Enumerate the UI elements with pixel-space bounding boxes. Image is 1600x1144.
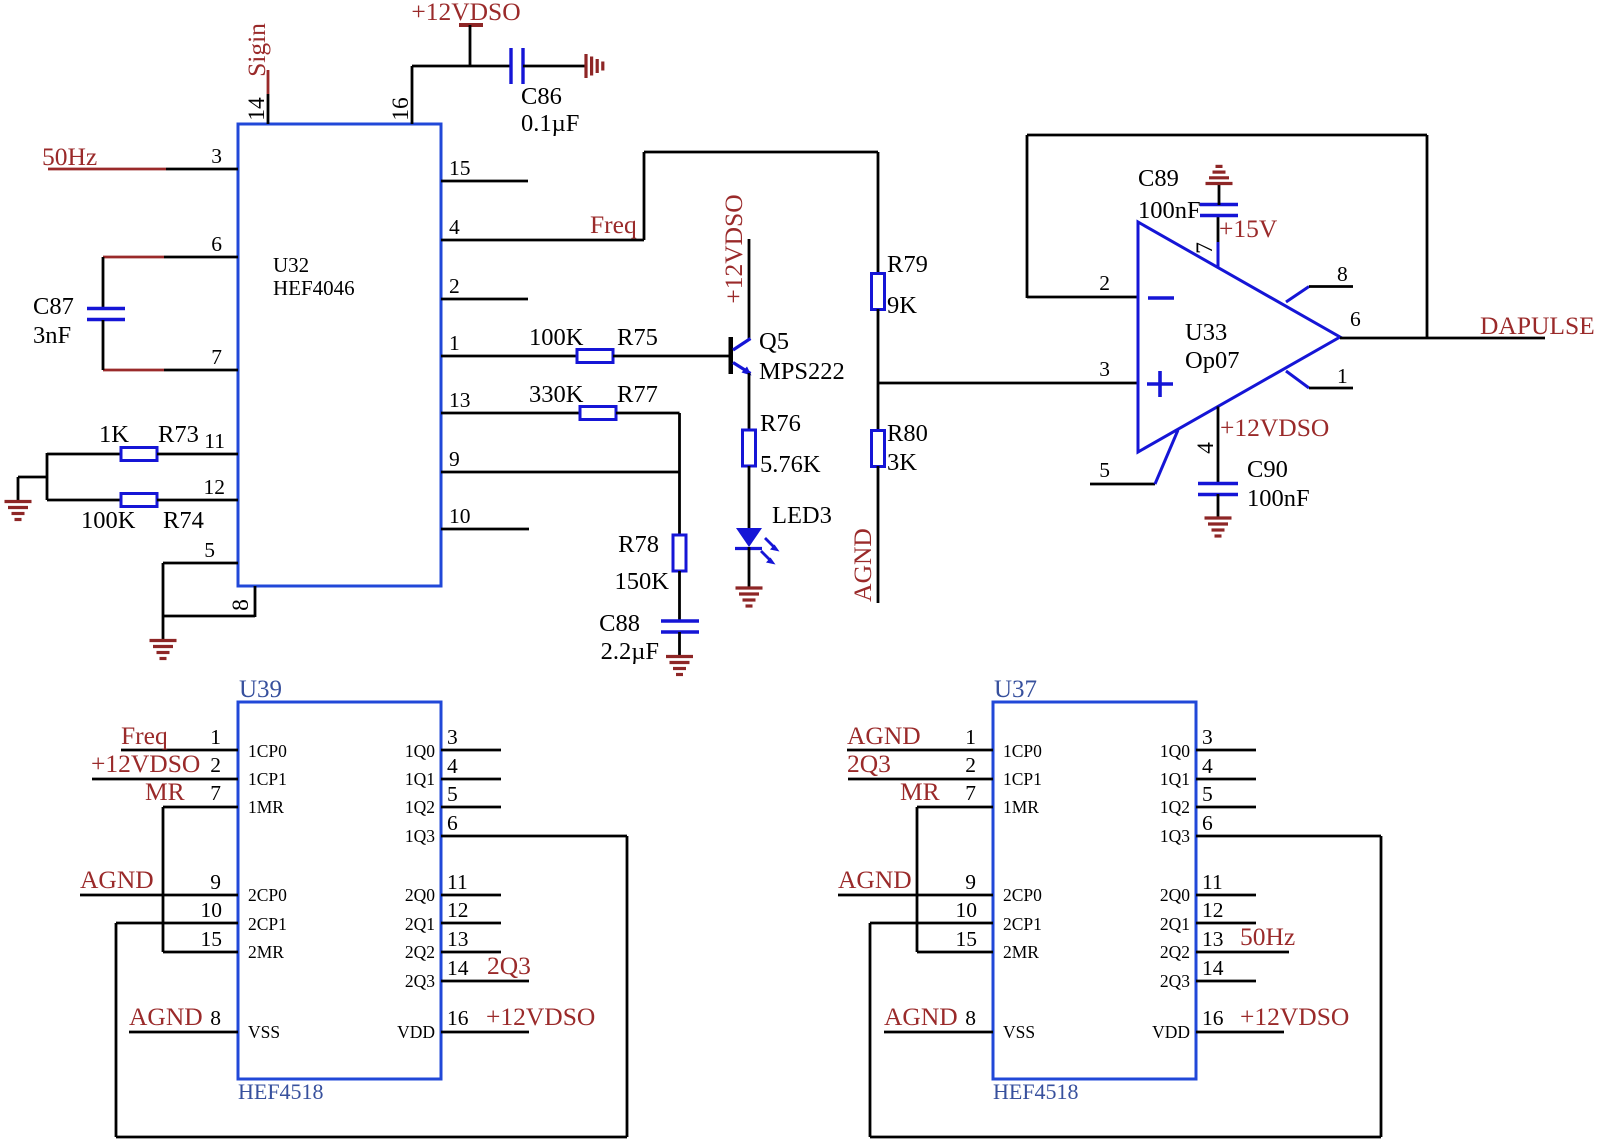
wire U39 pin 11 stub xyxy=(441,894,501,897)
svg-text:Freq: Freq xyxy=(121,721,168,750)
LED3 diode triangle xyxy=(736,528,762,547)
svg-text:1K: 1K xyxy=(99,421,129,448)
svg-text:R79: R79 xyxy=(887,251,928,278)
wire C90 to ground xyxy=(1217,494,1220,518)
svg-text:5.76K: 5.76K xyxy=(760,451,821,478)
wire op-amp pin 2 xyxy=(1027,296,1140,299)
svg-text:9: 9 xyxy=(449,447,460,471)
svg-text:1Q3: 1Q3 xyxy=(1160,826,1190,846)
svg-text:VDD: VDD xyxy=(1152,1022,1190,1042)
wire U39 pin 7 xyxy=(163,806,238,809)
wire U37 pin 16 VDD xyxy=(1196,1031,1284,1034)
ground (LED3) xyxy=(736,586,763,589)
svg-text:7: 7 xyxy=(210,781,221,805)
svg-text:7: 7 xyxy=(1192,242,1218,254)
wire C88 to ground xyxy=(678,632,681,656)
svg-text:+12VDSO: +12VDSO xyxy=(1240,1002,1349,1031)
svg-text:1Q1: 1Q1 xyxy=(405,769,435,789)
wire U39 bottom rail xyxy=(116,1136,627,1139)
svg-text:Q5: Q5 xyxy=(759,328,789,355)
svg-text:1Q1: 1Q1 xyxy=(1160,769,1190,789)
svg-text:6: 6 xyxy=(447,811,458,835)
svg-text:5: 5 xyxy=(1202,782,1213,806)
wire U37 pin10 down xyxy=(869,923,872,1137)
wire U39 pin 1 xyxy=(121,749,238,752)
LED3 light arrow 1 xyxy=(765,538,774,547)
svg-text:R80: R80 xyxy=(887,420,928,447)
svg-text:4: 4 xyxy=(1193,442,1219,454)
wire U39 pin 13 stub xyxy=(441,951,501,954)
wire Freq rail down xyxy=(877,152,880,274)
svg-text:AGND: AGND xyxy=(848,528,877,602)
svg-text:330K: 330K xyxy=(529,381,584,408)
node 50Hz wire (red) xyxy=(48,168,166,171)
svg-text:+12VDSO: +12VDSO xyxy=(486,1002,595,1031)
resistor R76 xyxy=(743,430,756,466)
wire U37 MR vertical xyxy=(916,807,919,952)
svg-text:C90: C90 xyxy=(1247,456,1288,483)
wire U39 pin6 down xyxy=(626,836,629,1137)
svg-text:14: 14 xyxy=(244,97,270,121)
wire U37 pin 6 xyxy=(1196,835,1381,838)
wire U39 pin 14 stub xyxy=(441,980,529,983)
svg-text:U37: U37 xyxy=(994,676,1037,703)
op-amp U33 triangle xyxy=(1138,222,1340,452)
svg-text:100K: 100K xyxy=(81,507,136,534)
svg-text:8: 8 xyxy=(228,599,254,611)
resistor R75 xyxy=(577,350,613,363)
svg-text:R73: R73 xyxy=(158,421,199,448)
wire U39 pin 16 VDD xyxy=(441,1031,529,1034)
svg-text:7: 7 xyxy=(965,781,976,805)
svg-text:2CP1: 2CP1 xyxy=(248,914,287,934)
wire pin 3 xyxy=(166,168,238,171)
svg-text:U32: U32 xyxy=(273,253,309,277)
wire pin 4 down xyxy=(1217,407,1220,484)
wire U39 pin 9 xyxy=(80,894,238,897)
wire R76 to LED3 xyxy=(748,466,751,528)
svg-text:5: 5 xyxy=(447,782,458,806)
svg-text:50Hz: 50Hz xyxy=(42,142,97,171)
wire R80 to AGND xyxy=(877,466,880,603)
U39 pin function labels left xyxy=(248,741,287,1042)
wire pin4 up xyxy=(643,152,646,240)
svg-text:5: 5 xyxy=(1099,458,1110,482)
wire pin 6 (red part) xyxy=(103,256,164,259)
svg-text:1Q0: 1Q0 xyxy=(1160,741,1190,761)
svg-text:AGND: AGND xyxy=(884,1002,958,1031)
svg-text:2Q3: 2Q3 xyxy=(1160,971,1190,991)
wire pin 14 (red part) xyxy=(267,70,270,94)
svg-text:2Q1: 2Q1 xyxy=(405,914,435,934)
resistor R78 xyxy=(673,535,686,571)
svg-text:100nF: 100nF xyxy=(1138,197,1201,224)
svg-text:DAPULSE: DAPULSE xyxy=(1480,311,1595,340)
svg-text:AGND: AGND xyxy=(847,721,921,750)
resistor R80 xyxy=(872,431,885,467)
IC U37 HEF4518 box xyxy=(993,702,1196,1079)
svg-text:Op07: Op07 xyxy=(1185,347,1239,374)
ground (R73/R74) xyxy=(5,500,32,503)
svg-text:12: 12 xyxy=(204,475,226,499)
svg-text:2MR: 2MR xyxy=(1003,942,1039,962)
wire pin 10 stub xyxy=(441,528,529,531)
svg-text:1Q0: 1Q0 xyxy=(405,741,435,761)
svg-text:1CP1: 1CP1 xyxy=(248,769,287,789)
svg-text:0.1µF: 0.1µF xyxy=(521,110,579,137)
svg-text:3: 3 xyxy=(447,725,458,749)
svg-text:1Q2: 1Q2 xyxy=(1160,797,1190,817)
wire U37 pin 2 xyxy=(848,778,993,781)
capacitor C87 xyxy=(87,307,125,310)
svg-text:50Hz: 50Hz xyxy=(1240,922,1295,951)
capacitor C86 xyxy=(509,48,512,84)
svg-text:4: 4 xyxy=(447,754,458,778)
wire C87 top xyxy=(102,257,105,308)
svg-text:8: 8 xyxy=(1337,262,1348,286)
svg-text:C89: C89 xyxy=(1138,165,1179,192)
wire feedback right xyxy=(1426,135,1429,338)
svg-text:R74: R74 xyxy=(163,507,204,534)
wire pin 13 xyxy=(441,412,580,415)
svg-text:C87: C87 xyxy=(33,293,74,320)
svg-text:1MR: 1MR xyxy=(1003,797,1039,817)
svg-text:4: 4 xyxy=(1202,754,1213,778)
wire pin 12 left xyxy=(47,499,121,502)
svg-text:13: 13 xyxy=(1202,927,1224,951)
svg-text:8: 8 xyxy=(210,1006,221,1030)
svg-text:1Q3: 1Q3 xyxy=(405,826,435,846)
wire C86 to ground xyxy=(523,65,586,68)
wire pin 5 xyxy=(1090,483,1155,486)
svg-text:1: 1 xyxy=(1337,364,1348,388)
ground (C89, up) xyxy=(1206,182,1233,185)
svg-text:C86: C86 xyxy=(521,83,562,110)
svg-text:13: 13 xyxy=(447,927,469,951)
svg-text:2: 2 xyxy=(210,753,221,777)
wire U37 pin 7 xyxy=(917,806,993,809)
U37 pin function labels right xyxy=(1152,741,1190,1042)
wire R79 to R80 xyxy=(877,309,880,431)
svg-text:2Q3: 2Q3 xyxy=(847,749,891,778)
svg-text:5: 5 xyxy=(204,538,215,562)
svg-text:2Q2: 2Q2 xyxy=(405,942,435,962)
wire U37 pin 11 stub xyxy=(1196,894,1256,897)
wire pin 4 xyxy=(441,239,644,242)
wire U39 pin 12 stub xyxy=(441,922,501,925)
wire pin 11 right xyxy=(157,453,238,456)
svg-text:2CP0: 2CP0 xyxy=(248,885,287,905)
capacitor C89 xyxy=(1200,203,1238,206)
resistor R74 xyxy=(121,494,157,507)
svg-text:11: 11 xyxy=(447,870,468,894)
resistor R73 xyxy=(121,448,157,461)
wire C87 bottom xyxy=(102,320,105,370)
svg-text:6: 6 xyxy=(1202,811,1213,835)
wire pin 8 drop xyxy=(254,586,257,617)
U33 plus input symbol xyxy=(1147,382,1173,386)
svg-text:MR: MR xyxy=(145,777,185,806)
wire U37 pin6 down xyxy=(1380,836,1383,1137)
svg-text:100nF: 100nF xyxy=(1247,485,1310,512)
wire U39 pin 4 stub xyxy=(441,778,501,781)
wire U39 pin 2 xyxy=(92,778,238,781)
wire pin8 horizontal xyxy=(163,615,255,618)
U33 pin 5 diagonal xyxy=(1155,430,1178,484)
svg-text:8: 8 xyxy=(965,1006,976,1030)
wire ground drop xyxy=(17,477,20,501)
svg-text:AGND: AGND xyxy=(80,865,154,894)
svg-text:2MR: 2MR xyxy=(248,942,284,962)
wire U37 pin 9 xyxy=(838,894,993,897)
wire U37 pin 3 stub xyxy=(1196,749,1256,752)
svg-text:1: 1 xyxy=(210,725,221,749)
svg-text:+15V: +15V xyxy=(1219,214,1278,243)
wire R75 to Q5 xyxy=(613,355,729,358)
svg-text:1CP0: 1CP0 xyxy=(248,741,287,761)
svg-text:16: 16 xyxy=(1202,1006,1224,1030)
wire R78 to C88 xyxy=(678,571,681,620)
U39 pin function labels right xyxy=(397,741,435,1042)
svg-text:3K: 3K xyxy=(887,449,917,476)
svg-text:2: 2 xyxy=(1099,271,1110,295)
svg-text:2: 2 xyxy=(449,274,460,298)
svg-text:4: 4 xyxy=(449,215,460,239)
resistor R79 xyxy=(872,274,885,310)
svg-text:14: 14 xyxy=(1202,956,1224,980)
transistor Q5 collector diagonal xyxy=(733,339,751,351)
svg-text:1Q2: 1Q2 xyxy=(405,797,435,817)
wire vertical R73-R74 xyxy=(46,453,49,500)
svg-text:R76: R76 xyxy=(760,410,801,437)
wire pin 1 stub xyxy=(1309,387,1353,390)
U33 minus input symbol xyxy=(1148,296,1174,300)
svg-text:9: 9 xyxy=(210,870,221,894)
svg-text:12: 12 xyxy=(447,898,469,922)
svg-text:+12VDSO: +12VDSO xyxy=(411,0,520,26)
svg-text:3: 3 xyxy=(1202,725,1213,749)
U37 pin function labels left xyxy=(1003,741,1042,1042)
transistor Q5 emitter arrowhead xyxy=(742,367,752,376)
transistor Q5 emitter diagonal xyxy=(733,363,751,374)
wire U39 MR vertical xyxy=(162,807,165,952)
svg-text:6: 6 xyxy=(211,232,222,256)
wire feedback top xyxy=(1027,134,1427,137)
svg-text:3nF: 3nF xyxy=(33,322,71,349)
svg-text:10: 10 xyxy=(449,504,471,528)
wire U37 pin 15 xyxy=(917,951,993,954)
capacitor C90 xyxy=(1198,482,1238,485)
ground (C90) xyxy=(1205,516,1232,519)
wire pin 2 stub xyxy=(441,298,528,301)
wire pin 7 xyxy=(164,369,238,372)
wire R77 right xyxy=(616,412,680,415)
svg-text:R78: R78 xyxy=(618,531,659,558)
U33 pin 1 diagonal xyxy=(1286,371,1309,388)
wire U37 pin 4 stub xyxy=(1196,778,1256,781)
ground (U32 pin5/8) xyxy=(150,639,177,642)
wire LED3 to ground xyxy=(748,547,751,587)
svg-text:2.2µF: 2.2µF xyxy=(601,638,659,665)
svg-text:16: 16 xyxy=(388,97,414,121)
svg-text:1: 1 xyxy=(449,331,460,355)
wire pin 5 xyxy=(163,562,238,565)
svg-text:2Q1: 2Q1 xyxy=(1160,914,1190,934)
svg-text:16: 16 xyxy=(447,1006,469,1030)
svg-text:+12VDSO: +12VDSO xyxy=(91,749,200,778)
wire output DAPULSE xyxy=(1340,337,1545,340)
ground (C88) xyxy=(666,655,693,658)
U33 pin 7 stub xyxy=(1217,216,1220,243)
wire U37 pin 14 stub xyxy=(1196,980,1256,983)
wire ground stub xyxy=(18,476,48,479)
wire power drop xyxy=(469,25,472,66)
wire pin 8 stub xyxy=(1309,285,1353,288)
wire pin 7 (red part) xyxy=(103,369,164,372)
wire C89 to ground xyxy=(1218,185,1221,205)
wire feedback left xyxy=(1026,135,1029,298)
svg-text:150K: 150K xyxy=(615,568,670,595)
wire U39 pin 15 xyxy=(163,951,238,954)
svg-text:HEF4518: HEF4518 xyxy=(993,1079,1079,1104)
wire pin 14 xyxy=(267,94,270,124)
svg-text:9K: 9K xyxy=(887,292,917,319)
wire U39 pin 8 VSS xyxy=(129,1031,238,1034)
svg-text:R77: R77 xyxy=(617,381,658,408)
power +12VDSO bar xyxy=(459,23,483,27)
wire U37 pin 12 stub xyxy=(1196,922,1256,925)
wire pin 9 xyxy=(441,471,680,474)
svg-text:+12VDSO: +12VDSO xyxy=(1220,413,1329,442)
svg-text:Freq: Freq xyxy=(590,210,637,239)
transistor Q5 base bar xyxy=(729,337,734,374)
svg-text:2Q0: 2Q0 xyxy=(1160,885,1190,905)
svg-text:14: 14 xyxy=(447,956,469,980)
wire Q5 emitter xyxy=(748,373,751,430)
svg-text:100K: 100K xyxy=(529,324,584,351)
wire U39 pin 10 xyxy=(116,922,238,925)
svg-text:9: 9 xyxy=(965,870,976,894)
wire pin 6 xyxy=(164,256,238,259)
wire Freq rail xyxy=(644,151,878,154)
svg-text:3: 3 xyxy=(1099,357,1110,381)
IC U39 HEF4518 box xyxy=(238,702,441,1079)
wire U39 pin 5 stub xyxy=(441,806,501,809)
wire pin 16 xyxy=(411,66,414,124)
wire pin 15 stub xyxy=(441,180,528,183)
svg-text:1: 1 xyxy=(965,725,976,749)
wire U37 pin 10 xyxy=(870,922,993,925)
IC U32 HEF4046 box xyxy=(238,124,441,586)
svg-text:15: 15 xyxy=(201,927,223,951)
wire top rail xyxy=(412,65,510,68)
svg-text:VSS: VSS xyxy=(248,1022,280,1042)
svg-text:HEF4046: HEF4046 xyxy=(273,276,355,300)
wire U37 pin 8 VSS xyxy=(884,1031,993,1034)
svg-text:6: 6 xyxy=(1350,307,1361,331)
svg-text:12: 12 xyxy=(1202,898,1224,922)
svg-text:VDD: VDD xyxy=(397,1022,435,1042)
wire U39 pin 3 stub xyxy=(441,749,501,752)
svg-text:2Q3: 2Q3 xyxy=(487,951,531,980)
svg-text:10: 10 xyxy=(201,898,223,922)
svg-text:1MR: 1MR xyxy=(248,797,284,817)
svg-text:LED3: LED3 xyxy=(772,502,832,529)
svg-text:10: 10 xyxy=(956,898,978,922)
svg-text:2Q2: 2Q2 xyxy=(1160,942,1190,962)
svg-text:1CP1: 1CP1 xyxy=(1003,769,1042,789)
svg-text:11: 11 xyxy=(1202,870,1223,894)
LED3 light arrow 2 xyxy=(761,551,770,560)
svg-text:1CP0: 1CP0 xyxy=(1003,741,1042,761)
svg-text:15: 15 xyxy=(956,927,978,951)
wire U37 pin 5 stub xyxy=(1196,806,1256,809)
svg-text:VSS: VSS xyxy=(1003,1022,1035,1042)
svg-text:3: 3 xyxy=(211,144,222,168)
svg-text:2: 2 xyxy=(965,753,976,777)
wire U39 pin10 down xyxy=(115,923,118,1137)
svg-text:Sigin: Sigin xyxy=(242,23,271,77)
wire pin 11 left xyxy=(47,453,121,456)
wire U39 pin 6 xyxy=(441,835,627,838)
svg-text:11: 11 xyxy=(204,429,225,453)
svg-text:AGND: AGND xyxy=(838,865,912,894)
svg-text:+12VDSO: +12VDSO xyxy=(719,194,748,303)
svg-text:C88: C88 xyxy=(599,610,640,637)
svg-text:U33: U33 xyxy=(1185,319,1227,346)
wire pin5 down xyxy=(162,563,165,640)
wire U37 pin 1 xyxy=(847,749,993,752)
LED3 cathode bar xyxy=(735,547,762,550)
wire Q5 collector xyxy=(748,239,751,339)
svg-text:HEF4518: HEF4518 xyxy=(238,1079,324,1104)
svg-text:13: 13 xyxy=(449,388,471,412)
wire U37 pin 13 stub xyxy=(1196,951,1289,954)
svg-text:2Q0: 2Q0 xyxy=(405,885,435,905)
ground (C86, signal) xyxy=(584,54,587,78)
svg-text:U39: U39 xyxy=(239,676,282,703)
resistor R77 xyxy=(580,407,616,420)
svg-text:MPS222: MPS222 xyxy=(759,358,845,385)
svg-text:AGND: AGND xyxy=(129,1002,203,1031)
wire pin 12 right xyxy=(157,499,238,502)
svg-text:15: 15 xyxy=(449,156,471,180)
U33 pin 8 diagonal xyxy=(1286,287,1309,303)
capacitor C88 xyxy=(661,619,699,622)
wire op-amp pin 3 xyxy=(878,382,1138,385)
svg-text:7: 7 xyxy=(211,345,222,369)
svg-text:MR: MR xyxy=(900,777,940,806)
svg-text:2CP1: 2CP1 xyxy=(1003,914,1042,934)
svg-text:2CP0: 2CP0 xyxy=(1003,885,1042,905)
svg-text:2Q3: 2Q3 xyxy=(405,971,435,991)
wire down to R78 xyxy=(678,413,681,535)
wire U37 bottom rail xyxy=(870,1136,1381,1139)
svg-text:R75: R75 xyxy=(617,324,658,351)
wire pin 1 xyxy=(441,355,577,358)
